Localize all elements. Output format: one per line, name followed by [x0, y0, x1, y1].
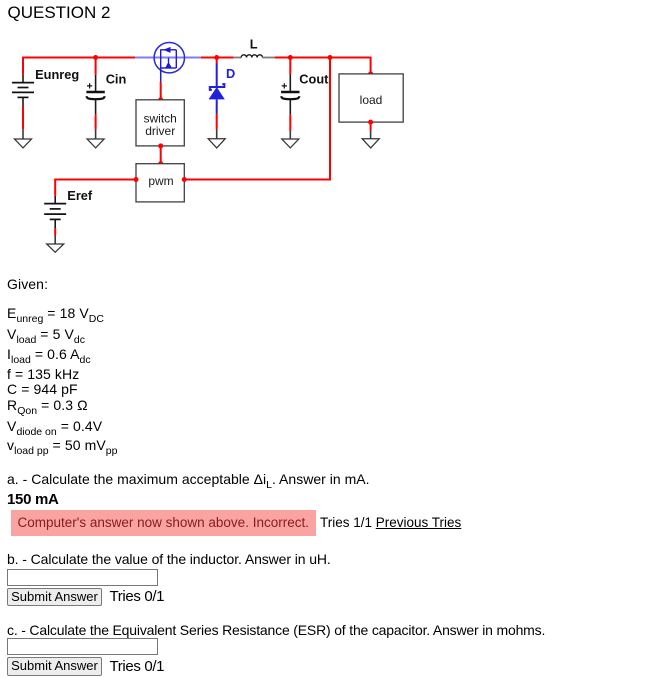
svg-text:L: L — [250, 36, 258, 51]
load box — [339, 74, 403, 122]
label D — [226, 66, 235, 81]
wire into load — [370, 57, 372, 74]
wire top rail right (red) — [201, 57, 371, 59]
svg-text:Cout: Cout — [299, 71, 329, 86]
wire gate to switch driver — [160, 68, 162, 100]
wire top rail left (red) — [23, 57, 135, 59]
battery Eunreg — [12, 83, 34, 98]
ground (Eref) — [47, 244, 64, 252]
svg-text:Cin: Cin — [106, 71, 127, 86]
node Cout junction — [288, 55, 293, 60]
wire feedback (down and to pwm) — [184, 58, 330, 180]
heading QUESTION 2 — [8, 4, 111, 21]
wire top rail through MOSFET (light blue) — [135, 57, 201, 59]
svg-text:load: load — [360, 93, 383, 107]
switch driver box — [136, 100, 184, 146]
node pwm left — [134, 177, 139, 182]
node Cin junction — [93, 55, 98, 60]
question c — [7, 623, 545, 637]
node gate/driver junction — [158, 97, 163, 102]
ground (load) — [362, 139, 379, 148]
svg-text:driver: driver — [145, 124, 175, 138]
diode D (schottky) — [209, 84, 225, 99]
wire Cout branch — [289, 58, 291, 140]
question b — [7, 552, 331, 566]
ground (Cout) — [282, 139, 299, 148]
wire Eunreg branch — [22, 57, 24, 139]
svg-text:pwm: pwm — [148, 174, 173, 188]
transistor Q1 (MOSFET in circle) — [154, 43, 184, 73]
label Cin — [106, 71, 127, 86]
svg-text:Eunreg: Eunreg — [35, 67, 79, 82]
node pwm top — [158, 161, 163, 166]
inductor L — [234, 55, 275, 58]
battery Eref — [44, 204, 66, 220]
wire pwm to Eref — [55, 180, 136, 245]
label Eunreg — [35, 67, 79, 82]
node D junction — [214, 55, 219, 60]
node pwm right — [182, 177, 187, 182]
node load top — [368, 71, 373, 76]
ground (Cin) — [87, 139, 104, 148]
question a — [7, 472, 370, 490]
node load bottom — [368, 120, 373, 125]
ground (diode) — [208, 139, 225, 148]
ground (Eunreg) — [15, 139, 32, 148]
label L — [250, 36, 258, 51]
label Cout — [299, 71, 329, 86]
svg-text:Eref: Eref — [67, 188, 93, 203]
capacitor Cout — [281, 83, 299, 99]
wire diode branch — [216, 58, 218, 139]
label Eref — [67, 188, 93, 203]
wire Cin branch — [95, 58, 97, 140]
node switch driver bottom — [158, 143, 163, 148]
capacitor Cin — [86, 83, 104, 99]
given section — [7, 277, 48, 291]
pwm box — [136, 164, 184, 202]
svg-text:D: D — [226, 66, 235, 81]
wire load to ground — [370, 122, 372, 139]
wire switch driver to pwm — [160, 146, 162, 164]
node feedback junction — [328, 55, 333, 60]
circuit schematic — [0, 0, 650, 262]
